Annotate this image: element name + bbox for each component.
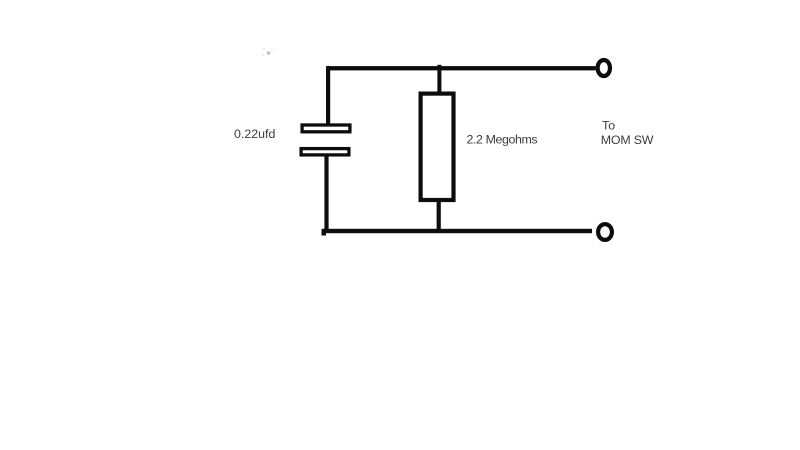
svg-text:0.22ufd: 0.22ufd [234, 127, 275, 141]
terminal bottom [598, 224, 612, 240]
wire resistor bottom lead [437, 200, 441, 232]
wire bottom horizontal [322, 229, 592, 233]
svg-text:MOM SW: MOM SW [601, 133, 654, 147]
capacitor C1 plate top [302, 125, 350, 132]
wire resistor top lead [437, 65, 441, 95]
capacitor C1 plate bottom [301, 149, 349, 155]
svg-text:To: To [602, 118, 615, 132]
wire end nub bottom-left [322, 229, 327, 236]
wire capacitor bottom vertical [324, 156, 328, 234]
wire capacitor top vertical [326, 66, 330, 125]
svg-text:2.2 Megohms: 2.2 Megohms [467, 133, 538, 147]
terminal top [598, 60, 610, 76]
wire top horizontal [326, 66, 596, 70]
smudge mark [262, 48, 273, 56]
resistor R1 2.2M body [421, 94, 454, 200]
